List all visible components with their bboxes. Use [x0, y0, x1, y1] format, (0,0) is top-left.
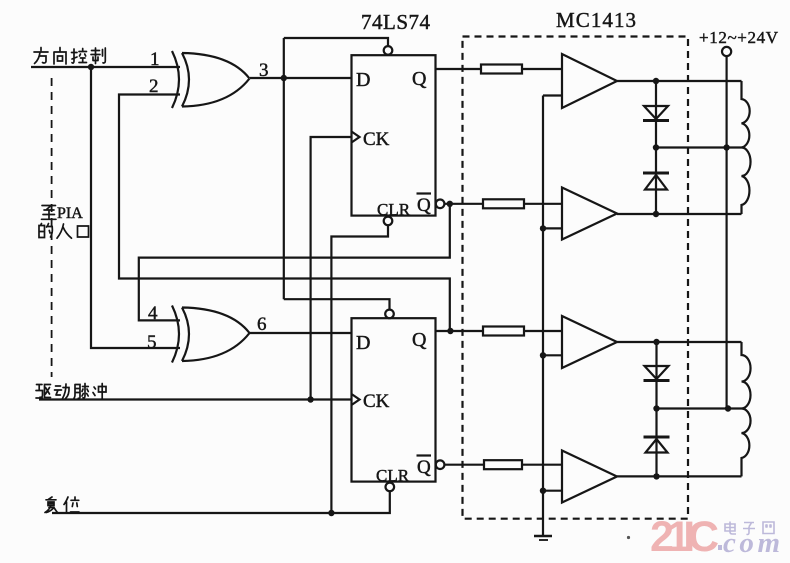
wire R4 to buffer A4 [522, 464, 562, 466]
wire rail stub to buffer A1 [543, 94, 562, 96]
node rail-A2 junction [540, 225, 546, 231]
resistor R4 [484, 460, 522, 469]
svg-text:6: 6 [257, 314, 267, 335]
coil L1 [742, 81, 751, 214]
svg-text:1: 1 [150, 49, 160, 70]
label +12~+24V [699, 28, 779, 47]
wire FF1 CLR jog down to reset line [331, 225, 388, 513]
wire buffer A3 output to coil L2 top [617, 341, 742, 343]
wire R3 to buffer A3 [524, 330, 562, 332]
pin bubble FF2 Qbar [436, 460, 445, 469]
wire diode B midpoint to supply and coil tap [657, 407, 742, 409]
node diode chain A top [653, 78, 659, 84]
node rail-A3 junction [540, 352, 546, 358]
wire reset line [52, 491, 390, 513]
resistor R1 [481, 65, 522, 74]
node reset/CLR junction [328, 510, 334, 516]
svg-text:Q: Q [417, 195, 431, 216]
wire FF2 Q to resistor R3 [436, 330, 483, 332]
pin bubble FF1 Qbar [436, 200, 445, 209]
pin label CLR2 [376, 466, 410, 485]
wire FF2 Qbar to resistor R4 [444, 464, 484, 466]
diode D3 [644, 366, 670, 381]
wire node3 to FF2 preset bubble [284, 299, 390, 309]
label pin number 6 [257, 314, 267, 335]
pin bubble FF1 CLR [384, 217, 393, 226]
pin label Q1 [412, 68, 427, 90]
wire R1 to buffer A1 [522, 68, 562, 70]
wire diode chain A [655, 81, 657, 214]
svg-text:74LS74: 74LS74 [361, 10, 431, 34]
svg-text:D: D [356, 332, 370, 354]
svg-text:CLR: CLR [376, 466, 410, 485]
label to-PIA-port line1 (zhi PIA) [42, 206, 57, 220]
watermark 21IC [650, 513, 719, 561]
label MC1413 [556, 8, 636, 32]
stray mark [627, 536, 630, 539]
wire buffer A4 output to coil L2 bottom [617, 475, 742, 477]
label pin number 4 [148, 303, 158, 324]
MC1413 dashed box [463, 37, 689, 519]
label to-PIA-port line2 (de ru kou) [39, 224, 89, 239]
wire XOR1 output node 3 to D1 [250, 77, 352, 79]
dashed PIA port line [51, 78, 53, 377]
svg-text:CLR: CLR [377, 200, 411, 219]
wire diode chain B [655, 342, 657, 476]
label drive-pulse (qu dong mai chong) [36, 384, 106, 399]
diode D4 [644, 437, 670, 453]
wire FF1 Q to resistor R1 [436, 68, 481, 70]
svg-text:MC1413: MC1413 [556, 8, 636, 32]
pin label CLR1 [377, 200, 411, 219]
label pin number 5 [147, 332, 157, 353]
XOR gate G2 lead arc [172, 306, 179, 363]
label pin number 1 [150, 49, 160, 70]
node rail-A4 junction [540, 488, 546, 494]
svg-text:2: 2 [149, 76, 159, 97]
wire node3 vertical branch [283, 38, 285, 299]
flip-flop U1 74LS74 box [352, 55, 436, 215]
wire supply rail [725, 56, 727, 408]
buffer A4 [562, 451, 617, 503]
svg-text:CK: CK [363, 391, 390, 412]
node supply tap A [723, 144, 729, 150]
pin label Q2-bar [417, 456, 432, 479]
svg-text:4: 4 [148, 303, 158, 324]
wire diode A midpoint to supply and coil tap [656, 146, 742, 148]
svg-text:5: 5 [147, 332, 157, 353]
diode D2 [643, 173, 669, 190]
node 3 junction [281, 75, 287, 81]
label pin number 3 [259, 60, 269, 81]
pin label D2 [356, 332, 370, 354]
pin label Q1-bar [417, 194, 432, 217]
wire rail stub to buffer A2 [543, 227, 562, 229]
watermark dianziwang [725, 522, 774, 535]
flip-flop U2 74LS74 box [352, 318, 436, 481]
node diode chain B bottom [653, 473, 659, 479]
diode D1 [643, 106, 669, 121]
buffer A1 [562, 54, 617, 108]
wire FF1 Qbar to resistor R2 [444, 203, 483, 205]
node diode chain A midpoint [653, 144, 659, 150]
wire node3 to FF1 preset bubble [284, 38, 388, 46]
label 74LS74 [361, 10, 431, 34]
XOR gate G2 body [182, 308, 250, 362]
svg-text:Q: Q [412, 68, 427, 90]
svg-text:21IC: 21IC [650, 513, 719, 561]
node FF2 Q junction [447, 328, 453, 334]
coil L2 [742, 342, 751, 476]
svg-text:Q: Q [417, 457, 431, 478]
wire direction to XOR2 pin5 [91, 67, 180, 348]
wire R2 to buffer A2 [524, 203, 562, 205]
resistor R3 [483, 327, 524, 336]
svg-text:PIA: PIA [57, 205, 83, 222]
wire FF1 Qbar feedback to XOR2 pin4 [139, 204, 450, 321]
pin bubble FF2 preset [385, 310, 394, 319]
svg-text:+12~+24V: +12~+24V [699, 28, 779, 47]
node FF1 Qbar junction [447, 201, 453, 207]
resistor R2 [483, 199, 524, 208]
buffer A3 [562, 316, 617, 368]
node clock junction [307, 396, 313, 402]
pin bubble FF1 preset [384, 46, 393, 55]
wire clock branch to FF1 CK [311, 137, 352, 400]
wire drive-pulse clock line [39, 398, 352, 400]
wire rail stub to buffer A4 [543, 490, 562, 492]
label direction-control (fang xiang kong zhi) [34, 48, 105, 65]
svg-text:CK: CK [363, 129, 390, 150]
pin label CK2 [363, 391, 390, 412]
label pin number 2 [149, 76, 159, 97]
node diode chain B top [653, 339, 659, 345]
svg-text:D: D [356, 69, 370, 91]
node supply tap B [725, 405, 731, 411]
watermark dot [718, 545, 722, 550]
wire buffer A1 output to coil L1 top [617, 80, 742, 82]
pin CK1 triangle [352, 132, 360, 143]
wire XOR1 pin2 feedback from FF2 Q [119, 95, 450, 332]
pin label CK1 [363, 129, 390, 150]
svg-text:Q: Q [412, 329, 427, 351]
buffer A2 [562, 188, 617, 240]
node diode chain A bottom [653, 211, 659, 217]
wire buffer A2 output to coil L1 bottom [617, 213, 742, 215]
pin label Q2 [412, 329, 427, 351]
wire common emitter rail [542, 96, 544, 536]
node direction junction [88, 64, 94, 70]
XOR gate G1 lead arc [172, 51, 179, 108]
label reset (fu wei) [45, 497, 79, 513]
node diode chain B midpoint [653, 405, 659, 411]
watermark .com script [723, 527, 780, 559]
wire XOR2 output 6 to D2 [250, 332, 352, 334]
pin bubble FF2 CLR [386, 483, 395, 492]
wire rail stub to buffer A3 [543, 354, 562, 356]
supply terminal [722, 47, 731, 56]
pin label D1 [356, 69, 370, 91]
pin CK2 triangle [352, 394, 360, 405]
XOR gate G1 body [182, 53, 250, 107]
ground [534, 536, 552, 540]
wire direction-control input line [31, 66, 180, 68]
svg-text:3: 3 [259, 60, 269, 81]
